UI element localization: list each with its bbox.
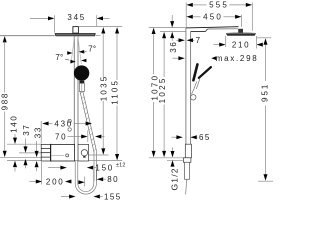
- dim max.298: [173, 57, 179, 59]
- svg-text:80: 80: [107, 175, 119, 184]
- dim 210: [214, 44, 220, 46]
- dim 1025: [162, 32, 166, 38]
- hose U loop: [75, 161, 96, 194]
- hand shower handle: [79, 81, 84, 84]
- hand shower holder on bar: [78, 144, 89, 161]
- dim 1035 line: [101, 27, 105, 33]
- shower hose diagonal run: [80, 91, 97, 181]
- dim 150 +-12: [48, 167, 61, 169]
- svg-text:210: 210: [232, 40, 250, 49]
- svg-text:7°: 7°: [55, 53, 63, 62]
- dim 951: [257, 37, 272, 39]
- valve top extension line: [7, 143, 41, 145]
- hand shower head (black circle): [74, 65, 89, 80]
- extension line arm top (left): [149, 26, 186, 28]
- shower arm side view: [186, 27, 239, 28]
- dim 80: [84, 177, 86, 187]
- dim 345 overhead shower width: [30, 17, 48, 19]
- svg-text:450: 450: [203, 13, 223, 22]
- svg-text:G1/2: G1/2: [169, 167, 179, 190]
- valve left extension to 200: [41, 162, 43, 185]
- head joint: [238, 29, 243, 33]
- screw line extension: [0, 156, 51, 158]
- svg-text:70: 70: [55, 132, 67, 141]
- svg-text:36: 36: [169, 40, 178, 52]
- union flange: [183, 158, 191, 163]
- dim 200: [30, 181, 37, 183]
- dim 7 pipe offset: [177, 39, 179, 41]
- dim 65: [172, 136, 177, 138]
- svg-text:1035: 1035: [100, 75, 109, 102]
- extension line from connector top: [78, 25, 122, 27]
- svg-text:max.298: max.298: [216, 54, 259, 63]
- svg-text:951: 951: [261, 83, 270, 102]
- svg-text:155: 155: [104, 192, 122, 201]
- svg-text:345: 345: [67, 13, 85, 22]
- dim 430 bar length: [40, 121, 42, 144]
- svg-text:65: 65: [199, 133, 211, 142]
- dim 1105 line: [115, 27, 119, 33]
- ceiling connector square: [73, 27, 79, 33]
- extension line arm bottom (left): [160, 31, 186, 33]
- holder centre extension line: [89, 154, 109, 156]
- shower pipe / wall bar: [73, 36, 75, 144]
- valve screw: [66, 154, 69, 157]
- svg-text:7°: 7°: [88, 45, 96, 54]
- holder line left extension: [19, 152, 41, 154]
- svg-text:1105: 1105: [110, 79, 119, 105]
- svg-text:430: 430: [54, 119, 72, 128]
- outlet pipe stub: [185, 162, 190, 179]
- dim 1070: [152, 28, 156, 34]
- bar bracket screws: [68, 119, 71, 122]
- tilt angle 7deg lower label: [70, 60, 75, 64]
- svg-text:555: 555: [209, 1, 229, 10]
- extension line x88: [87, 131, 89, 143]
- dim 450: [186, 15, 192, 19]
- svg-text:200: 200: [46, 177, 64, 186]
- dim 988 ceiling to valve: [3, 36, 7, 42]
- valve bottom extension line: [7, 160, 122, 162]
- svg-text:150: 150: [95, 163, 113, 172]
- dim 36 arm height: [171, 15, 173, 21]
- svg-text:±12: ±12: [116, 163, 126, 169]
- ceiling line: [0, 35, 55, 37]
- wall union block: [185, 144, 191, 158]
- dim G1/2 marker: [172, 148, 174, 152]
- dim 155 hose loop: [61, 196, 69, 198]
- svg-text:1025: 1025: [158, 76, 167, 103]
- valve body: [51, 144, 75, 161]
- overhead shower side view plate: [226, 33, 256, 35]
- svg-text:37: 37: [22, 123, 31, 135]
- vertical pipe side view: [185, 28, 187, 162]
- tilt angle 7deg upper label: [67, 51, 72, 55]
- dim 555 arm reach: [186, 3, 192, 7]
- union top extension line: [149, 157, 183, 159]
- svg-text:988: 988: [1, 92, 10, 110]
- holder clamp side: [192, 82, 197, 95]
- hand shower side view (angled stick): [193, 64, 197, 80]
- hose hatch marks: [80, 91, 96, 151]
- bottom reference line: [258, 180, 273, 182]
- hose stub: [186, 179, 187, 194]
- pipe tilt fan lines: [71, 37, 74, 65]
- union bottom extension line: [167, 159, 183, 161]
- valve escutcheon (ladder): [41, 144, 51, 161]
- holder knob: [191, 95, 196, 100]
- overhead shower plate (front): [55, 33, 96, 36]
- svg-text:7: 7: [196, 36, 201, 45]
- svg-text:140: 140: [9, 114, 18, 132]
